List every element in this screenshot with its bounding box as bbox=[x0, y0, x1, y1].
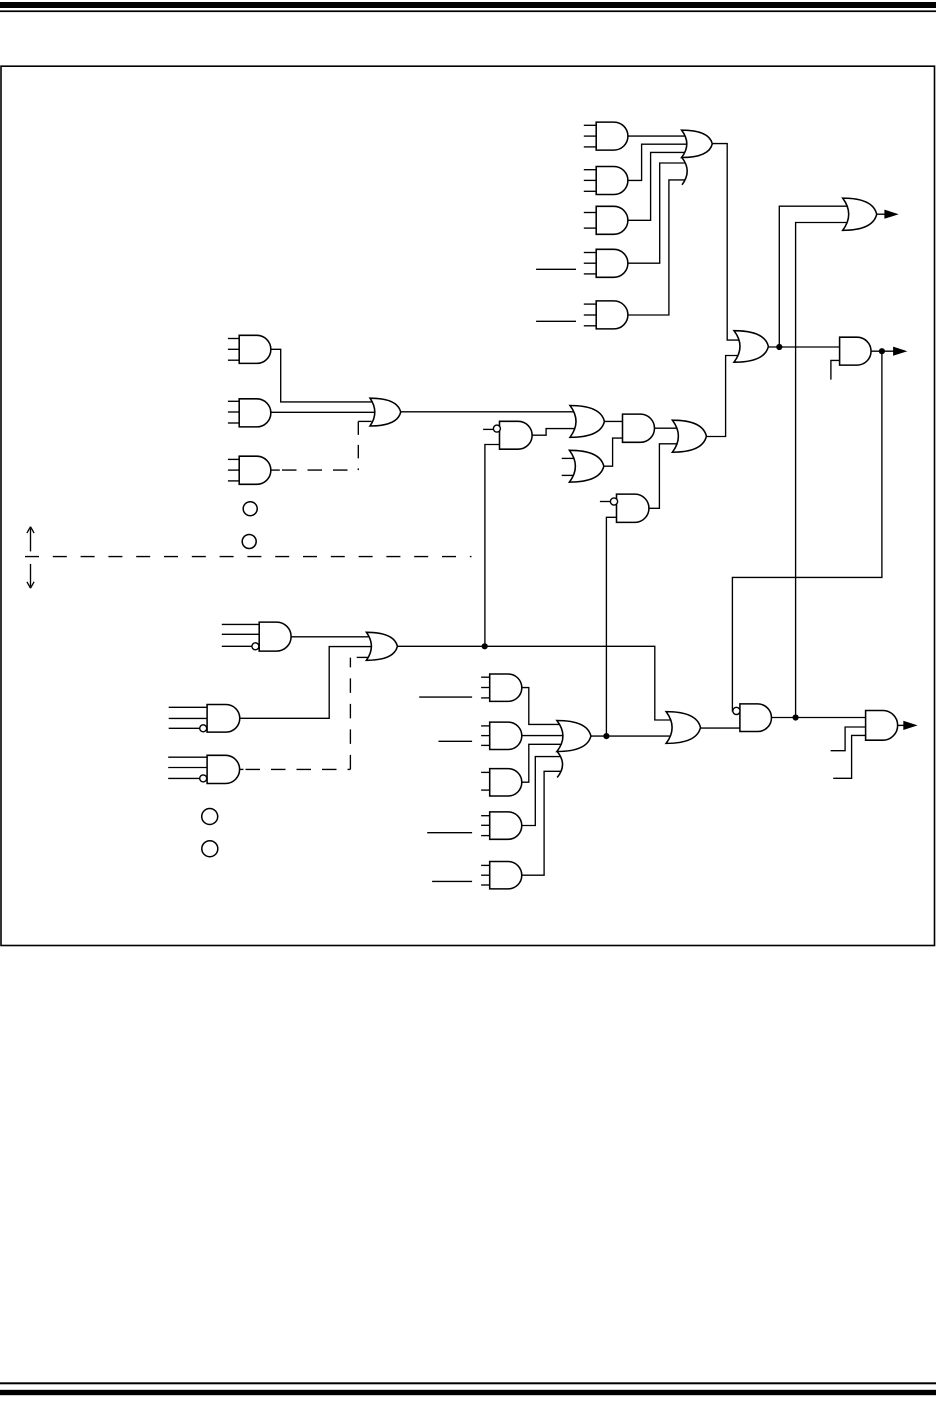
wire AND T2 output riser to OR1 input 2 bbox=[628, 144, 688, 180]
wire node C riser to NAND U8 input 2 bbox=[485, 445, 500, 647]
or gate OR8 bbox=[366, 632, 397, 660]
wire OR3 output to AND U9 input 1 bbox=[604, 420, 622, 422]
wire AND U14 input 3 stub bbox=[833, 735, 865, 778]
ellipsis circle lower 1 bbox=[202, 809, 218, 825]
wire AND F output solid stub bbox=[240, 768, 244, 770]
bubble on U12 input 1 bbox=[610, 498, 617, 505]
wire NAND U8 output step to OR3 input 2 bbox=[532, 429, 578, 436]
wire NAND U8 input 1 stub bbox=[483, 428, 494, 430]
wire OR8 output across to OR9 input 1 bbox=[397, 646, 674, 720]
wire AND T4 output riser to OR1 input 4 bbox=[628, 163, 686, 263]
wire AND G1 output riser to OR10 input 1 bbox=[522, 688, 565, 725]
node A junction dot bbox=[776, 344, 782, 350]
bubble on AND D input 3 bbox=[252, 643, 259, 650]
wire AND U9 output to OR5 input 1 bbox=[655, 427, 681, 429]
wire NAND U13 output to AND U14 input 1 bbox=[772, 717, 866, 719]
wire OR5 output up to OR6 input 2 bbox=[706, 356, 742, 437]
node B junction dot bbox=[879, 348, 885, 354]
wire OR8 input 3 stub bbox=[357, 656, 373, 658]
wire AND E output riser to OR8 input 2 bbox=[240, 647, 374, 719]
node E junction dot bbox=[603, 733, 609, 739]
and gate U9 bbox=[623, 414, 655, 442]
arrow wake-up output bbox=[884, 210, 898, 219]
OR10 input extension curve bbox=[557, 752, 562, 778]
figure frame box bbox=[1, 66, 935, 945]
dashed wire AND C output to OR2 input 3 bbox=[282, 469, 358, 471]
or gate OR5 bbox=[672, 420, 706, 452]
ellipsis circle upper 1 bbox=[243, 502, 257, 516]
and gate G5 bbox=[481, 864, 490, 866]
wire NAND U12 output riser to OR5 input 2 bbox=[649, 444, 681, 509]
or gate OR2 bbox=[370, 398, 401, 426]
and gate F with inverted input bbox=[168, 756, 207, 758]
double arrow down segment bbox=[30, 564, 32, 587]
and gate T5 bbox=[584, 303, 596, 305]
nand gate U8 (AND with inverted input 1) bbox=[500, 421, 533, 449]
wire OR1 output down to OR6 input 1 bbox=[712, 144, 742, 341]
wire OR4 input 1 stub bbox=[562, 457, 578, 459]
node D junction dot bbox=[793, 714, 799, 720]
wire OR10 output to OR9 input 2 bbox=[591, 735, 674, 737]
bubble on AND F input 3 bbox=[200, 775, 207, 782]
wire AND T3 output riser to OR1 input 3 bbox=[628, 152, 688, 220]
dashed continuation line bbox=[25, 556, 472, 558]
wire OR4 output riser to AND U9 input 2 bbox=[604, 438, 623, 466]
wire AND D output to OR8 input 1 bbox=[291, 636, 374, 638]
double arrow up segment bbox=[30, 529, 32, 552]
wire OR4 input 2 stub bbox=[562, 474, 578, 476]
wire AND B output to OR2 input 2 bbox=[271, 411, 377, 413]
wire AND G3 output riser to OR10 input 3 bbox=[520, 744, 564, 782]
bottom border thin line bbox=[0, 1382, 936, 1384]
wire AND G4 output riser to OR10 input 4 bbox=[522, 757, 561, 826]
and gate T2 bbox=[584, 169, 596, 171]
and gate G4 bbox=[481, 815, 490, 817]
wire AND U14 input 2 stub bbox=[831, 727, 866, 751]
wire AND U14 output to arrow bbox=[898, 724, 904, 726]
label line near AND G5 bbox=[432, 880, 472, 882]
and gate G1 bbox=[481, 676, 490, 678]
or gate OR7 (wake-up) bbox=[843, 198, 877, 230]
bottom border thick bar bbox=[0, 1390, 936, 1395]
nand gate U12 (AND with inverted input 1) bbox=[617, 494, 649, 522]
and gate D with inverted input bbox=[222, 623, 259, 625]
bubble on U13 input 1 bbox=[733, 707, 740, 714]
ellipsis circle lower 2 bbox=[202, 841, 218, 857]
wire NAND U12 input 1 stub bbox=[600, 501, 611, 503]
label line near AND T5 bbox=[536, 320, 576, 322]
and gate T1 bbox=[584, 124, 596, 126]
dashed riser AND F to OR8 bbox=[349, 658, 351, 770]
node C junction dot bbox=[482, 643, 488, 649]
or gate OR10 (5-input, bottom) bbox=[557, 721, 591, 752]
arrow lower output bbox=[903, 721, 917, 730]
label line near AND G1 bbox=[419, 696, 472, 698]
and gate G2 bbox=[481, 725, 490, 727]
ellipsis circle upper 2 bbox=[242, 535, 256, 549]
wire AND T1 output to OR1 input 1 bbox=[628, 135, 688, 137]
and gate E with inverted input bbox=[169, 706, 207, 708]
or gate OR4 bbox=[569, 450, 603, 482]
arrow interrupt output bbox=[893, 347, 907, 356]
dashed wire AND F output to OR8 input 3 bbox=[246, 768, 351, 770]
or gate OR6 bbox=[734, 331, 768, 363]
wire node B down and across to NAND U13 bubble bbox=[732, 351, 882, 711]
and gate T3 bbox=[584, 212, 596, 214]
wire AND C output solid stub bbox=[271, 469, 280, 471]
and gate A bbox=[228, 338, 239, 340]
and gate C bbox=[228, 458, 239, 460]
wire node E riser to NAND U12 input 2 bbox=[606, 517, 616, 736]
or gate OR9 bbox=[666, 712, 700, 744]
and gate B bbox=[228, 400, 239, 402]
and gate G3 bbox=[481, 771, 490, 773]
wire AND G2 output to OR10 input 2 bbox=[522, 735, 565, 737]
wire node A riser to OR7 input 1 bbox=[779, 206, 850, 347]
and gate T4 bbox=[584, 252, 596, 254]
label line near AND G2 bbox=[439, 740, 473, 742]
wire AND U10 input 2 stub bbox=[831, 360, 840, 379]
wire AND G5 output riser to OR10 input 5 bbox=[522, 771, 561, 875]
nand gate U13 (AND with inverted input 1) bbox=[740, 704, 772, 732]
wire node D riser to OR7 input 2 bbox=[796, 223, 850, 718]
wire AND T5 output riser to OR1 input 5 bbox=[628, 180, 686, 315]
wire AND U10 output to arrow bbox=[871, 350, 893, 352]
top border thick bar bbox=[0, 2, 936, 8]
top border thin line bbox=[0, 10, 936, 12]
dashed riser AND C to OR2 bbox=[357, 421, 359, 470]
wire OR2 input 3 corner stub bbox=[358, 420, 371, 422]
label line near AND G4 bbox=[427, 832, 472, 834]
label line near AND T4 bbox=[536, 268, 576, 270]
wire OR2 output to OR3 input 1 bbox=[401, 411, 578, 413]
bubble on AND E input 3 bbox=[200, 725, 207, 732]
wire OR6 output to AND U10 input 1 bbox=[768, 346, 839, 348]
or gate OR3 bbox=[570, 406, 604, 438]
wire OR9 output to NAND U13 input 2 bbox=[701, 727, 740, 729]
wire AND A output riser to OR2 input 1 bbox=[271, 349, 377, 402]
wire OR7 output to arrow bbox=[877, 213, 886, 215]
OR1 input extension curve bbox=[682, 158, 687, 185]
or gate OR1 (5-input, top) bbox=[682, 130, 713, 157]
bubble on U8 input 1 bbox=[493, 425, 500, 432]
and gate U10 (GIE gate) bbox=[840, 337, 871, 365]
and gate U14 (final output gate) bbox=[866, 711, 898, 741]
